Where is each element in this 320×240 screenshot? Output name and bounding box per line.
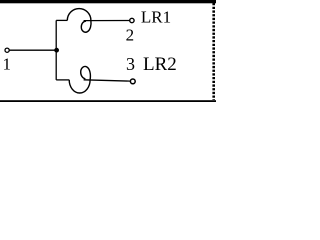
bottom border: [0, 100, 216, 102]
svg-text:LR2: LR2: [143, 54, 177, 75]
wire from coil LR1 to terminal 2: [84, 20, 130, 22]
right dashed border: [212, 3, 215, 100]
terminal 1: [5, 48, 9, 52]
svg-text:2: 2: [126, 26, 135, 45]
junction node: [54, 48, 59, 53]
svg-text:1: 1: [2, 54, 11, 73]
svg-text:3: 3: [126, 54, 135, 74]
wire from coil LR2 to terminal 3: [84, 80, 131, 81]
wire vertical branch stem: [55, 20, 57, 80]
terminal 3: [130, 79, 135, 84]
wire to coil LR1: [56, 19, 67, 21]
inductor LR1 coil: [67, 9, 91, 33]
svg-text:LR1: LR1: [141, 7, 171, 26]
inductor LR2 coil: [69, 66, 90, 93]
top border: [0, 0, 216, 3]
wire from terminal 1 to junction: [10, 49, 57, 51]
wire to coil LR2: [56, 79, 69, 81]
terminal 2: [130, 18, 134, 22]
